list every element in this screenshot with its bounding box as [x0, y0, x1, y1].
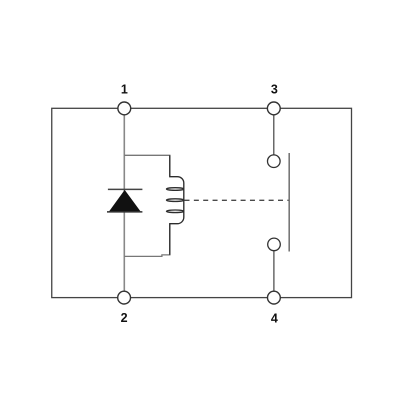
wire pin1 to pin2 (diode branch) [123, 115, 125, 291]
lower contact circle [268, 238, 281, 251]
svg-text:1: 1 [121, 82, 128, 96]
diode D1 cathode bar [108, 188, 142, 190]
upper contact circle [268, 155, 281, 168]
switch armature bar [288, 153, 290, 252]
pin 2 terminal [118, 291, 131, 304]
pin 1 terminal [118, 102, 131, 115]
pin 4 terminal [268, 291, 281, 304]
wire lower contact to pin4 [273, 251, 275, 292]
diode D1 anode bar [107, 211, 142, 213]
wire bottom junction to coil [124, 224, 170, 257]
svg-text:3: 3 [271, 82, 278, 96]
diode D1 triangle [109, 190, 141, 212]
inductor L1 (relay coil) [167, 155, 184, 255]
svg-text:4: 4 [271, 311, 278, 325]
relay package outline [52, 108, 352, 297]
wire pin3 to upper contact [273, 115, 275, 155]
svg-text:2: 2 [121, 311, 128, 325]
wire top junction to coil [124, 155, 170, 176]
pin 3 terminal [267, 102, 280, 115]
dashed mechanical link [185, 199, 290, 201]
